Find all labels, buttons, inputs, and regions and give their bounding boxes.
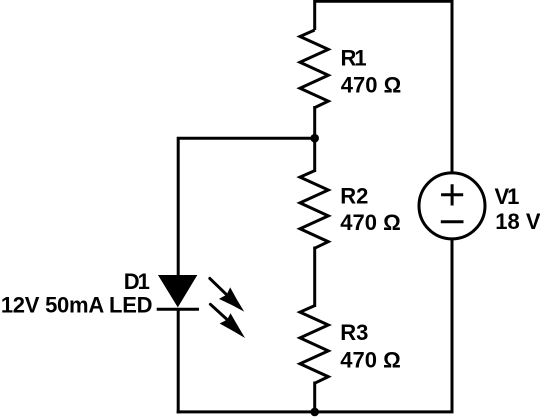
svg-text:470 Ω: 470 Ω [341, 73, 401, 98]
svg-text:R3: R3 [340, 320, 368, 345]
svg-text:18 V: 18 V [495, 209, 540, 234]
svg-text:470 Ω: 470 Ω [340, 210, 400, 235]
svg-text:D1: D1 [124, 269, 150, 294]
svg-text:V1: V1 [495, 184, 520, 209]
svg-text:R2: R2 [340, 183, 368, 208]
svg-text:12V 50mA LED: 12V 50mA LED [1, 293, 152, 318]
svg-text:R1: R1 [341, 45, 367, 70]
svg-text:470 Ω: 470 Ω [340, 347, 400, 372]
